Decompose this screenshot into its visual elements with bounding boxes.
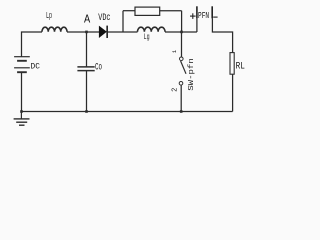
inductor Lg — [138, 27, 166, 32]
ground — [14, 112, 30, 126]
switch SW-pfn contact 1 circle — [180, 57, 184, 61]
junction dot ground — [20, 110, 23, 113]
resistor RL — [230, 53, 234, 75]
battery DC — [14, 57, 30, 72]
svg-text:Co: Co — [95, 63, 102, 74]
node A junction dot — [85, 31, 88, 34]
wire right vertical of parallel section — [181, 11, 183, 32]
svg-text:PFN: PFN — [198, 10, 209, 21]
capacitor Co — [77, 67, 94, 71]
wire diode cathode to parallel section — [108, 31, 123, 33]
junction dot switch bottom — [180, 110, 183, 113]
PFN - terminal bar — [211, 6, 213, 18]
junction dot capacitor bottom — [85, 110, 88, 113]
minus sign — [213, 16, 217, 18]
wire top branch left segment — [123, 10, 135, 12]
wire top-left vertical (DC+ to top rail) — [22, 32, 43, 57]
wire capacitor top lead — [86, 32, 88, 67]
switch SW-pfn contact 2 circle — [179, 82, 183, 86]
junction dot at switch/PFN top — [180, 31, 183, 34]
wire into Lg — [123, 31, 138, 33]
svg-text:RL: RL — [236, 62, 245, 73]
wire below + terminal bar — [196, 18, 198, 32]
svg-text:1: 1 — [171, 49, 178, 53]
svg-text:Lp: Lp — [46, 10, 52, 21]
wire capacitor bottom lead — [86, 71, 88, 112]
resistor (damping, unnamed) — [135, 7, 160, 15]
wire below - terminal bar, down and right to RL — [212, 18, 232, 52]
svg-text:Lg: Lg — [144, 32, 150, 42]
wire top branch right segment — [160, 10, 182, 12]
svg-text:A: A — [84, 13, 91, 27]
diode VDc — [99, 26, 108, 38]
switch arm — [181, 61, 186, 74]
plus sign — [190, 13, 196, 19]
PFN + terminal bar — [196, 6, 198, 18]
svg-text:SW-pfn: SW-pfn — [188, 58, 196, 91]
wire bottom rail — [21, 111, 232, 113]
wire switch top lead — [181, 32, 183, 57]
wire RL bottom lead — [232, 74, 234, 111]
inductor Lp — [42, 27, 67, 32]
svg-text:VDc: VDc — [98, 12, 110, 24]
wire left vertical of parallel RL-Lg section — [122, 11, 124, 32]
wire Lg to junction — [165, 31, 197, 33]
wire DC- bottom lead — [21, 73, 23, 112]
svg-text:DC: DC — [31, 61, 40, 71]
wire Lp to node A to diode — [67, 31, 99, 33]
svg-text:2: 2 — [172, 88, 180, 92]
wire switch bottom lead — [180, 85, 182, 111]
